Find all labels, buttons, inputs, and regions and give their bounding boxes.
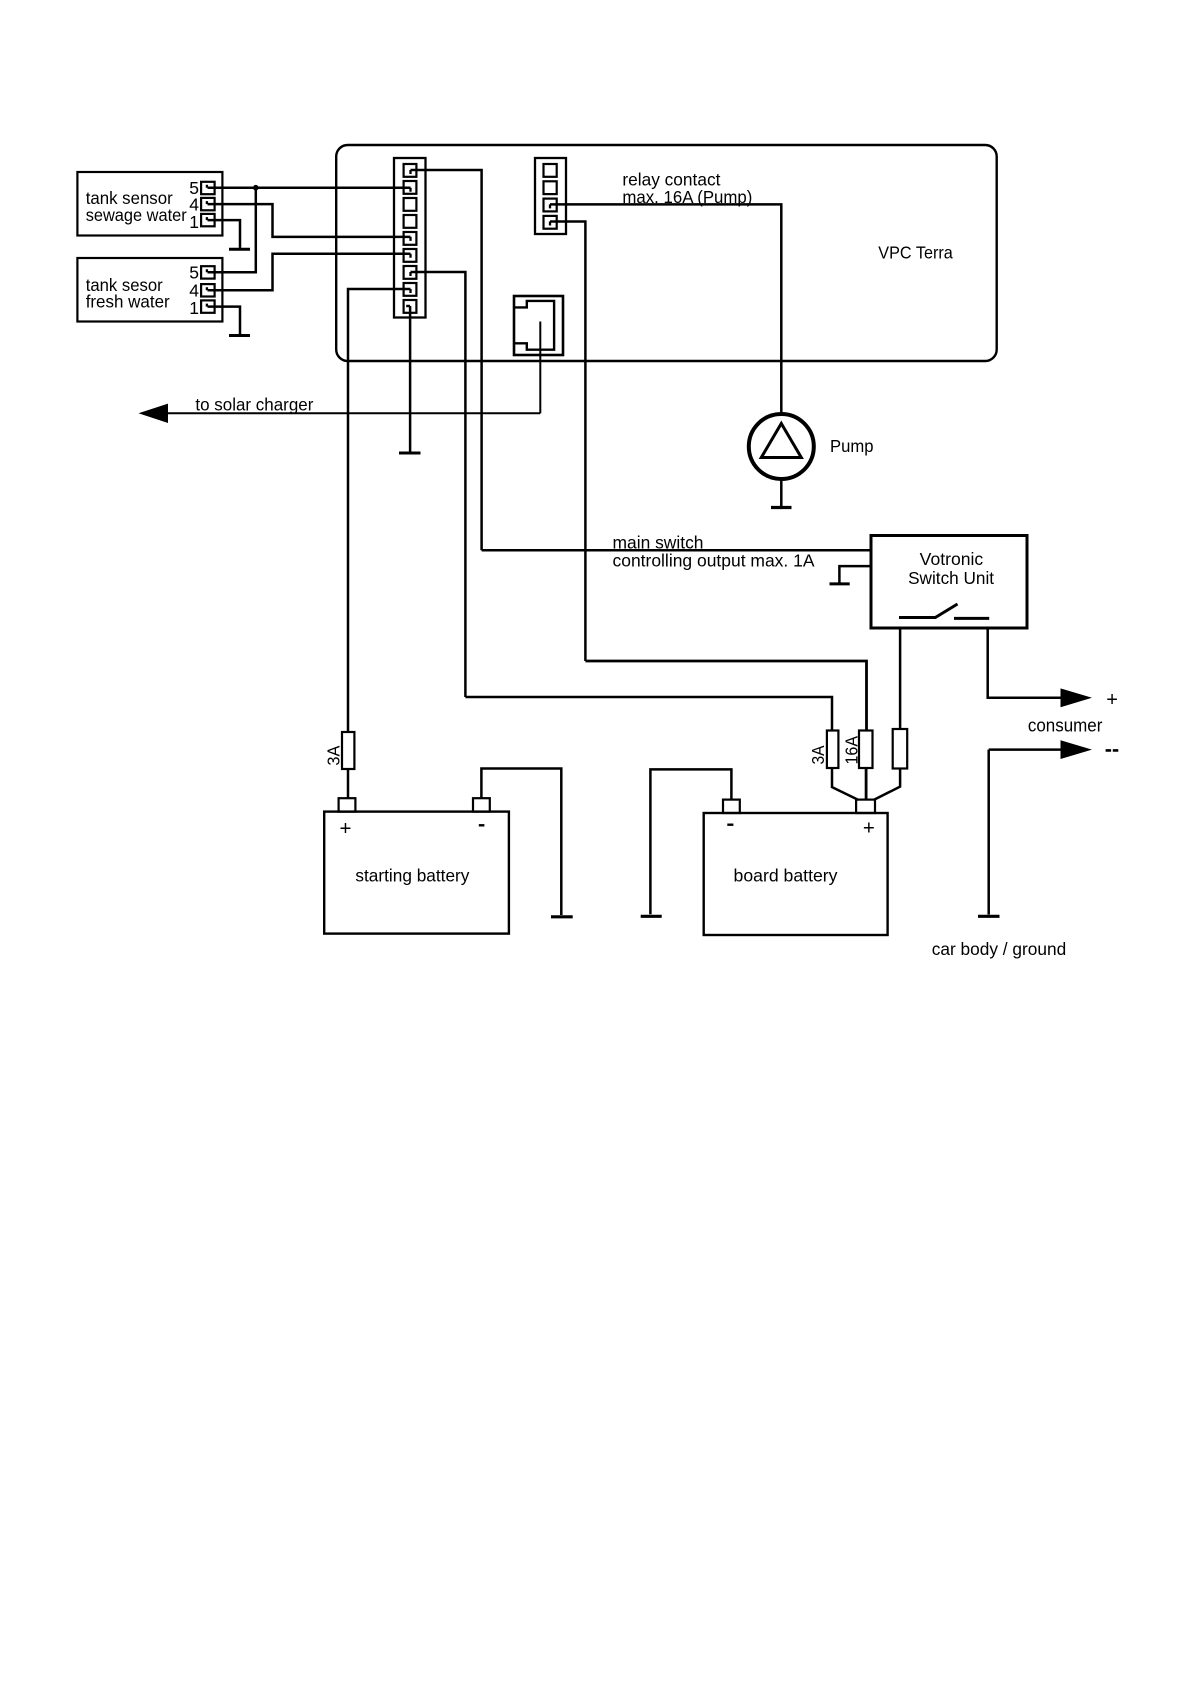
svg-text:+: +: [1106, 689, 1118, 711]
RJ45 socket inner outline: [515, 301, 555, 350]
ground sewage sensor: [229, 248, 250, 251]
wire main switch line to Votronic: [482, 549, 871, 552]
svg-text:consumer: consumer: [1028, 715, 1103, 736]
J1 pin 8: [404, 283, 417, 296]
svg-text:to solar charger: to solar charger: [195, 395, 313, 415]
board battery box: [704, 813, 888, 935]
pin contact hooks: [207, 170, 550, 307]
wire sewage pin4 to J1 pin5: [208, 204, 411, 237]
wire fuse F2 to board battery plus: [832, 768, 858, 800]
svg-text:Switch Unit: Switch Unit: [908, 568, 994, 588]
J1 pin 9: [404, 300, 417, 313]
ground starting battery: [551, 915, 573, 918]
svg-text:1: 1: [189, 212, 199, 232]
fuse F3 16A: [859, 731, 873, 769]
switch symbol S1: [899, 604, 989, 618]
wire J1 pin1 to main switch line: [411, 170, 482, 550]
J2 pin 1: [544, 164, 557, 177]
ground at Votronic input: [830, 582, 850, 585]
wire sewage pin5 to J1 pin2: [208, 186, 411, 189]
J2 pin 4: [544, 216, 557, 229]
label consumer minus dashes: [1106, 749, 1119, 752]
wire fresh pin1 to ground: [208, 307, 241, 335]
svg-text:VPC Terra: VPC Terra: [878, 243, 953, 263]
wire RJ45 to solar line: [539, 322, 541, 414]
fuse F1 3A (starting battery): [342, 732, 354, 769]
wire sewage pin1 to ground: [208, 220, 241, 248]
fresh pin 4: [201, 284, 215, 296]
wire pin7 line to 3A fuse: [465, 697, 832, 731]
junction node pin5 bus: [253, 185, 259, 191]
board battery minus terminal: [723, 800, 740, 813]
wire fuse F1 to starting battery plus: [347, 769, 350, 798]
J2 pin 3: [544, 199, 557, 212]
wire J1 pin7 down: [411, 272, 466, 697]
svg-text:+: +: [863, 816, 875, 839]
wire junction down to fresh pin5: [208, 188, 256, 273]
J2 pin 2: [544, 181, 557, 194]
sewage pin 1: [201, 214, 215, 226]
svg-text:starting battery: starting battery: [355, 866, 469, 886]
pump circle P1: [749, 414, 814, 479]
Votronic Switch Unit box: [871, 536, 1027, 629]
svg-text:16A: 16A: [842, 736, 862, 765]
consumer plus arrowhead: [1061, 688, 1093, 707]
J1 pin 7: [404, 266, 417, 279]
svg-text:3A: 3A: [324, 745, 344, 765]
wire Votronic left output to fuse F4: [899, 629, 902, 730]
wire consumer minus to car body ground: [987, 750, 990, 915]
ground below J1 pin9: [399, 452, 421, 455]
svg-text:max. 16A (Pump): max. 16A (Pump): [622, 187, 752, 207]
starting battery minus terminal: [473, 798, 490, 811]
J1 pin 3: [404, 198, 417, 211]
sewage pin 5: [201, 182, 215, 194]
svg-text:Votronic: Votronic: [920, 549, 984, 569]
ground board battery: [641, 915, 662, 918]
ground car body: [978, 915, 1000, 918]
pump triangle: [761, 424, 801, 458]
wire J1 pin9 to ground: [406, 306, 410, 452]
wire starting battery minus to ground: [481, 769, 561, 916]
J1 pin 2: [404, 181, 417, 194]
fresh pin 1: [201, 300, 215, 312]
label board battery minus dash: [727, 824, 733, 826]
to solar charger arrow line: [166, 412, 540, 414]
svg-text:fresh water: fresh water: [86, 292, 170, 312]
svg-text:1: 1: [189, 298, 199, 318]
starting battery plus terminal: [339, 798, 356, 811]
wire board battery minus to ground: [650, 769, 731, 914]
wire Votronic right output to consumer plus: [988, 629, 1061, 698]
wire J2 pin4 down: [550, 222, 585, 662]
fresh pin 5: [201, 266, 215, 278]
RJ45 socket body: [514, 296, 563, 355]
J1 pin 6: [404, 249, 417, 262]
board battery plus terminal: [856, 800, 875, 813]
wire fuse F4 to board battery plus: [874, 769, 900, 800]
svg-text:Pump: Pump: [830, 436, 874, 456]
wire pin4 line to 16A fuse: [585, 661, 866, 731]
starting battery box: [324, 812, 509, 934]
VPC Terra box: [336, 145, 997, 361]
svg-text:board battery: board battery: [734, 866, 838, 886]
J1 pin 5: [404, 232, 417, 245]
solar arrowhead: [139, 404, 169, 423]
ground below pump: [771, 506, 792, 509]
wire J2 pin3 relay contact to pump: [550, 204, 781, 412]
J1 pin 1: [404, 164, 417, 177]
wire fresh pin4 to J1 pin6: [208, 254, 411, 290]
tank sensor sewage water box: [77, 172, 222, 236]
wire ground stub to Votronic: [839, 566, 871, 582]
svg-text:car body / ground: car body / ground: [932, 939, 1066, 959]
svg-text:+: +: [340, 817, 352, 840]
consumer minus arrowhead: [1061, 740, 1093, 759]
fuse F2 3A (board): [827, 731, 839, 769]
wire J1 pin8 to starting fuse: [348, 289, 411, 732]
label starting battery minus dash: [479, 824, 485, 826]
fuse F4 (Votronic output): [893, 729, 908, 769]
svg-text:3A: 3A: [808, 745, 828, 764]
ground fresh sensor: [229, 334, 250, 337]
consumer minus line: [989, 748, 1061, 751]
sewage pin 4: [201, 198, 215, 210]
wire pump to ground: [780, 479, 783, 506]
wire fuse F3 to board battery plus: [865, 768, 868, 800]
tank sensor fresh water box: [77, 258, 222, 322]
svg-text:controlling output max. 1A: controlling output max. 1A: [613, 551, 815, 571]
svg-text:main switch: main switch: [613, 533, 704, 553]
J1 pin 4: [404, 215, 417, 228]
svg-text:sewage water: sewage water: [86, 205, 187, 225]
connector J1 (9-pin) body: [394, 158, 426, 318]
connector J2 (4-pin relay) body: [535, 158, 566, 234]
